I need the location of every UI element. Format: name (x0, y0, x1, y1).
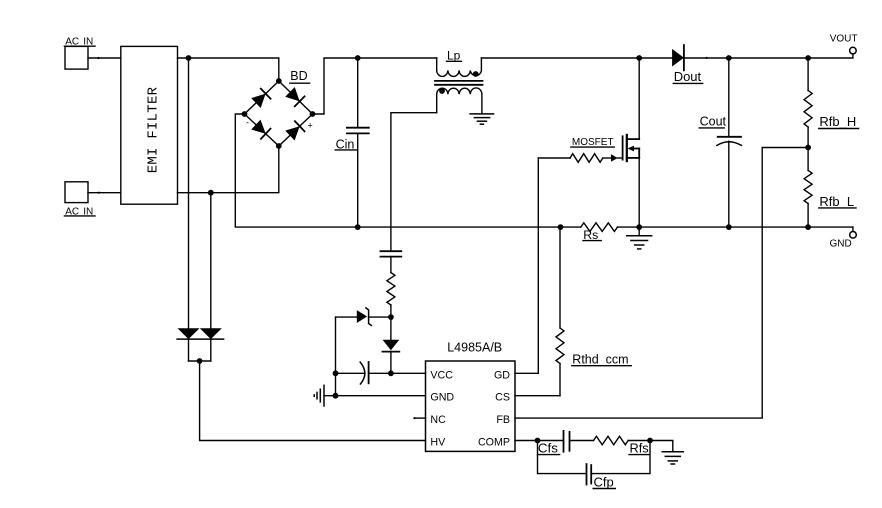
wire zener anode down (335, 317, 337, 396)
svg-text:NC: NC (430, 414, 446, 426)
pin dot (98, 192, 100, 194)
node HV junction (197, 358, 203, 364)
resistor aux (387, 273, 395, 318)
svg-text:CS: CS (495, 392, 510, 404)
wire Dout to Cout node (684, 57, 729, 59)
svg-text:Rthd_ccm: Rthd_ccm (572, 353, 628, 367)
capacitor Cin (335, 58, 369, 227)
resistor Rs (581, 223, 618, 242)
node Rfb divider (805, 145, 811, 151)
svg-text:-: - (246, 118, 249, 128)
terminal AC_IN top (64, 37, 95, 70)
svg-text:Cfp: Cfp (594, 474, 614, 489)
svg-text:VOUT: VOUT (830, 34, 858, 45)
diode BD lower-left (251, 119, 270, 138)
resistor Rthd_ccm (556, 328, 631, 396)
capacitor Cfs (538, 431, 594, 456)
EMI FILTER block (121, 46, 178, 204)
node junction top-left (186, 55, 192, 61)
resistor gate (with arrow) (538, 154, 622, 163)
svg-text:Cfs: Cfs (538, 440, 558, 455)
MOSFET label (571, 137, 614, 148)
svg-text:Lp: Lp (447, 49, 461, 63)
diode BD lower-right (285, 121, 304, 140)
resistor Rfb_H (804, 58, 859, 148)
capacitor VCC (polarized) (336, 362, 426, 384)
ground transformer secondary (470, 114, 494, 124)
node aux junction (388, 314, 394, 320)
svg-text:FB: FB (496, 414, 510, 426)
wire AC_IN top to EMI filter (88, 57, 121, 59)
wire bridge right vertex to DC bus (313, 58, 437, 114)
wire HV to IC (200, 361, 426, 441)
svg-text:Rfs: Rfs (630, 441, 649, 456)
svg-text:EMI FILTER: EMI FILTER (146, 86, 162, 173)
svg-text:Rs: Rs (583, 228, 598, 242)
svg-text:Dout: Dout (674, 69, 702, 84)
ground MOSFET source (627, 227, 652, 249)
node VCC diode (388, 370, 394, 376)
wire MOSFET source (638, 158, 640, 227)
wire GND pin (336, 395, 426, 397)
svg-text:BD: BD (290, 69, 307, 83)
wire COMP pin (515, 440, 564, 442)
node CS tap on rail (558, 224, 564, 230)
svg-text:GD: GD (494, 369, 510, 381)
node MOSFET drain on bus (636, 55, 642, 61)
phase dot primary (473, 71, 479, 77)
wire AC_IN bottom to EMI filter (88, 192, 121, 194)
node Rfb_H top on bus (805, 55, 811, 61)
wire divider to FB line (515, 148, 808, 419)
diode aux (vertical) (383, 317, 400, 373)
diode BD upper-right (285, 87, 304, 106)
wire secondary to aux chain (391, 113, 437, 252)
startup diode D1 (178, 328, 200, 339)
wire EMI filter bottom to bridge bottom (178, 146, 279, 193)
ground IC (rotated) (314, 385, 335, 406)
node Cin bottom on rail (355, 224, 361, 230)
transformer Lp secondary winding (437, 88, 482, 114)
phase dot secondary (439, 88, 445, 94)
wire rail to GND terminal (852, 227, 854, 231)
wire Cfp loop left (538, 441, 587, 474)
svg-text:GND: GND (829, 238, 851, 249)
transformer Lp label (447, 49, 462, 63)
wire Cout node to Rfb node (729, 57, 808, 59)
terminal GND (829, 232, 856, 250)
wire MOSFET drain (638, 58, 640, 139)
node bridge top vertex (276, 78, 282, 84)
wire return rail right section (618, 226, 853, 228)
wire primary to drain node (481, 57, 639, 59)
wire bus to VOUT (808, 54, 853, 58)
wire to ground (650, 441, 673, 452)
terminal AC_IN bottom (64, 182, 95, 218)
svg-text:+: + (308, 121, 313, 131)
bridge BD label (290, 69, 310, 83)
transformer core lines (435, 81, 483, 85)
wire bus to Dout (639, 57, 672, 59)
wire CS tap down to Rthd_ccm (559, 227, 561, 328)
MOSFET symbol (623, 135, 640, 161)
wire junction down to startup diode D2 (210, 193, 212, 329)
svg-text:GND: GND (430, 392, 454, 404)
node bridge bottom vertex (276, 143, 282, 149)
node MOSFET source on rail (636, 224, 642, 230)
node Cin top (355, 55, 361, 61)
svg-text:Cout: Cout (700, 114, 727, 128)
svg-text:COMP: COMP (478, 437, 510, 449)
svg-text:VCC: VCC (430, 369, 453, 381)
pin dot (97, 57, 99, 59)
wire bridge left vertex to return rail (235, 114, 580, 227)
resistor Rfb_L (804, 148, 856, 228)
node COMP junction (535, 438, 541, 444)
wire NC stub (415, 417, 426, 419)
wire CS pin (515, 395, 560, 397)
capacitor Cout (699, 58, 741, 227)
node Rfs right (647, 438, 653, 444)
node bridge left vertex (242, 111, 248, 117)
diode zener (horizontal) (336, 308, 391, 326)
node Cout bottom on rail (726, 224, 732, 230)
startup diode D2 (177, 328, 224, 339)
wire GD to gate resistor (515, 158, 538, 373)
diode Dout (672, 45, 703, 84)
svg-text:HV: HV (430, 437, 446, 449)
node Rfb_L bottom on rail (805, 224, 811, 230)
node GND pin junction (333, 393, 339, 399)
diode BD upper-left (251, 89, 270, 108)
bridge BD edges (245, 81, 313, 146)
resistor Rfs (594, 436, 651, 455)
node VCC left (333, 370, 339, 376)
op-amp U1 L4985A/B IC box (426, 340, 516, 451)
terminal VOUT (830, 34, 858, 54)
node junction on bottom EMI wire (208, 190, 214, 196)
node Cout top (726, 55, 732, 61)
pin dot on bus (706, 57, 708, 59)
capacitor aux (on secondary tap) (381, 251, 402, 272)
svg-text:L4985A/B: L4985A/B (447, 340, 502, 354)
svg-text:Rfb_L: Rfb_L (819, 194, 854, 209)
transformer Lp primary winding (437, 58, 482, 76)
wire diodes to HV node (189, 339, 211, 361)
ground comp network (662, 452, 683, 464)
svg-text:Rfb_H: Rfb_H (819, 114, 856, 129)
wire left vertical to startup diode D1 (188, 58, 190, 328)
wire EMI filter to bridge top (178, 58, 279, 81)
wire Cfp loop right (591, 441, 650, 474)
node bridge right vertex (310, 111, 316, 117)
capacitor Cfp (587, 464, 616, 489)
